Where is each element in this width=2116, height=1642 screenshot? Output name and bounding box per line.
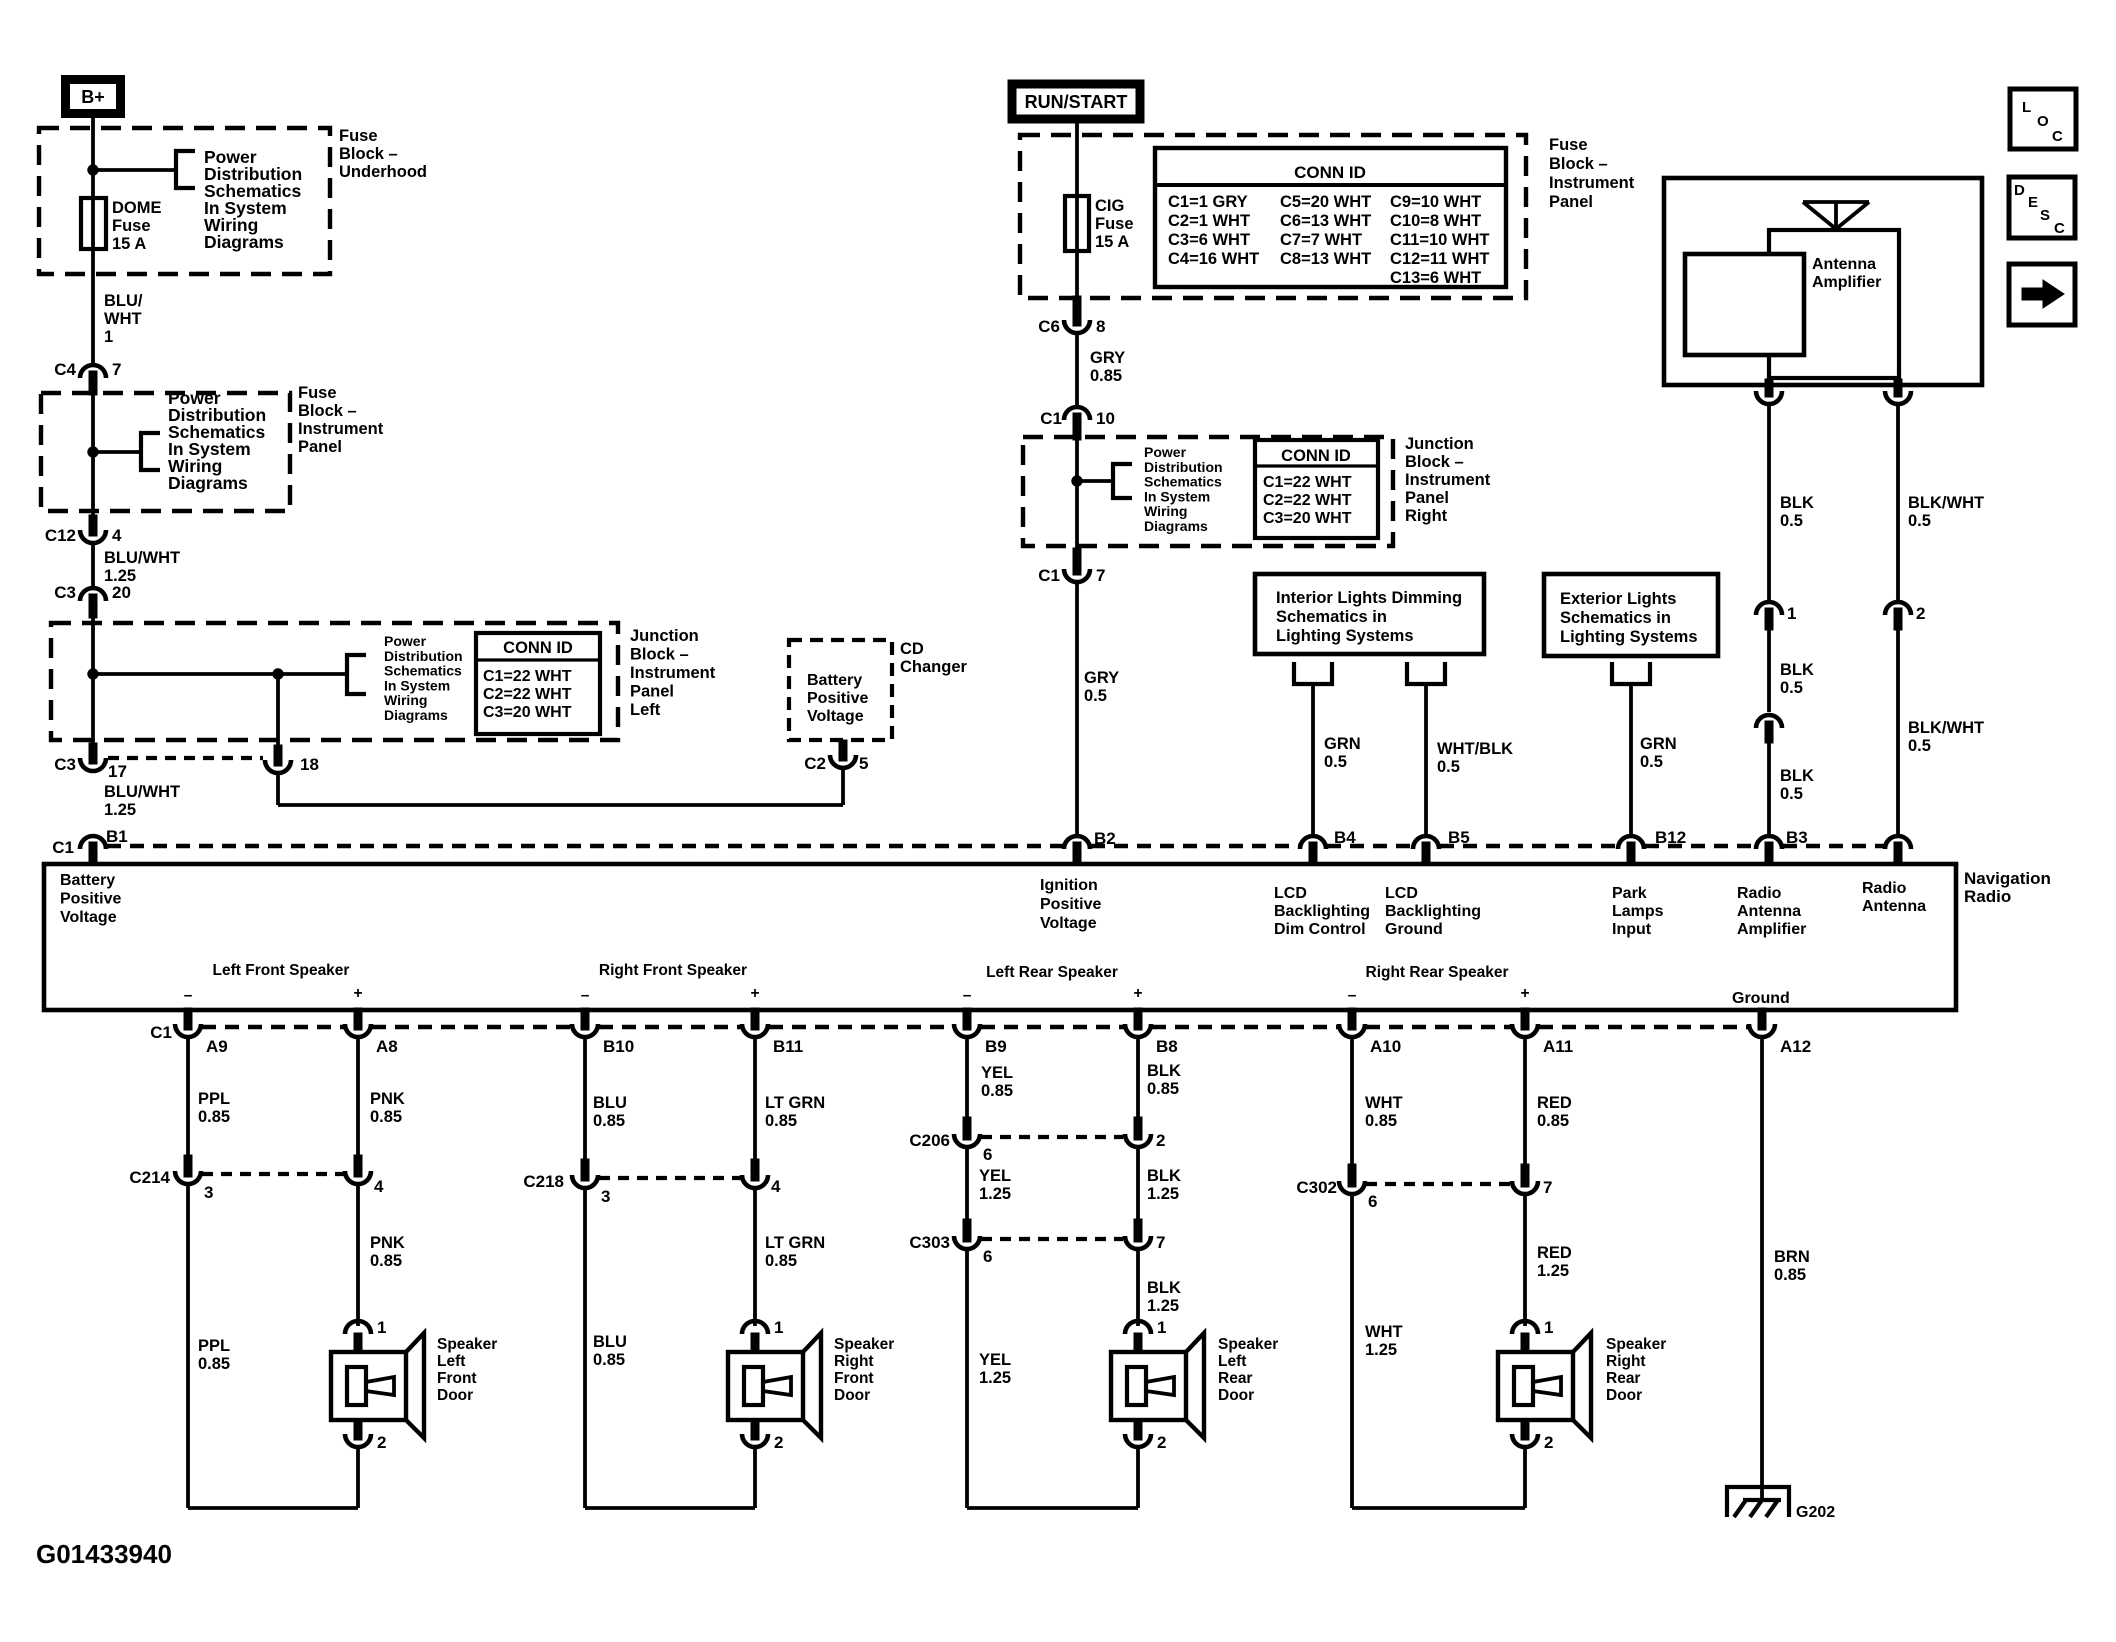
- node junction B (to connector 18): [273, 669, 283, 679]
- svg-text:B9: B9: [985, 1037, 1007, 1056]
- svg-text:BLK: BLK: [1780, 661, 1814, 679]
- svg-text:LCD: LCD: [1385, 885, 1418, 902]
- svg-text:0.5: 0.5: [1324, 753, 1347, 771]
- svg-text:Distribution: Distribution: [384, 648, 463, 664]
- svg-text:+: +: [353, 985, 362, 1002]
- svg-text:C10=8 WHT: C10=8 WHT: [1390, 212, 1481, 230]
- svg-text:Instrument: Instrument: [1405, 471, 1491, 489]
- dashed connector row speakers (radio bottom): [202, 1025, 344, 1029]
- connector C214 pin 4: [354, 1155, 362, 1177]
- svg-text:WHT/BLK: WHT/BLK: [1437, 740, 1513, 758]
- svg-text:A12: A12: [1780, 1037, 1811, 1056]
- svg-text:Speaker: Speaker: [437, 1336, 497, 1353]
- svg-text:Positive: Positive: [1040, 896, 1101, 913]
- svg-text:B11: B11: [773, 1037, 803, 1056]
- svg-text:+: +: [1520, 985, 1529, 1002]
- connector C302 pin 6: [1348, 1164, 1356, 1187]
- svg-text:7: 7: [1543, 1178, 1552, 1197]
- svg-text:C2: C2: [804, 754, 826, 773]
- wire A11 RED down: [1523, 1037, 1527, 1172]
- svg-text:Schematics: Schematics: [384, 663, 462, 679]
- svg-text:Left Front Speaker: Left Front Speaker: [213, 962, 350, 979]
- svg-text:PPL: PPL: [198, 1090, 230, 1108]
- svg-text:C3=6 WHT: C3=6 WHT: [1168, 231, 1250, 249]
- svg-text:0.85: 0.85: [593, 1112, 625, 1130]
- svg-text:0.85: 0.85: [981, 1082, 1013, 1100]
- dashed line C218 row: [599, 1176, 741, 1180]
- svg-text:18: 18: [300, 755, 319, 774]
- svg-text:Radio: Radio: [1862, 880, 1907, 897]
- connector pin B8: [1134, 1008, 1142, 1030]
- wire branch JB right: [1077, 479, 1113, 483]
- svg-text:Underhood: Underhood: [339, 163, 427, 181]
- svg-text:Panel: Panel: [298, 438, 342, 456]
- svg-text:C3: C3: [54, 583, 76, 602]
- svg-text:C3: C3: [54, 755, 76, 774]
- box Interior Lights Dimming Schematics in Lighting Systems: [1255, 574, 1484, 654]
- svg-text:C3=20 WHT: C3=20 WHT: [483, 704, 572, 721]
- svg-text:YEL: YEL: [979, 1167, 1011, 1185]
- connector C218 pin 3: [581, 1159, 589, 1181]
- fuse block underhood dashed box: [39, 128, 330, 274]
- svg-text:LT GRN: LT GRN: [765, 1094, 825, 1112]
- svg-text:8: 8: [1096, 317, 1105, 336]
- svg-text:6: 6: [983, 1145, 992, 1164]
- svg-text:6: 6: [1368, 1192, 1377, 1211]
- svg-text:0.85: 0.85: [1537, 1112, 1569, 1130]
- svg-text:2: 2: [1156, 1131, 1165, 1150]
- connector C218 pin 4: [751, 1159, 759, 1181]
- svg-text:C8=13 WHT: C8=13 WHT: [1280, 250, 1371, 268]
- svg-text:Speaker: Speaker: [1218, 1336, 1278, 1353]
- wire branch across JB left: [93, 672, 347, 676]
- svg-text:C218: C218: [523, 1172, 564, 1191]
- svg-text:C1: C1: [1040, 409, 1062, 428]
- svg-text:3: 3: [204, 1183, 213, 1202]
- svg-text:RED: RED: [1537, 1244, 1572, 1262]
- svg-text:CIG: CIG: [1095, 197, 1124, 215]
- svg-text:C302: C302: [1296, 1178, 1337, 1197]
- svg-text:Diagrams: Diagrams: [168, 473, 248, 493]
- svg-text:Junction: Junction: [630, 627, 699, 645]
- wire YEL to bottom: [965, 1249, 969, 1508]
- junction block instrument panel left dashed box: [51, 623, 618, 740]
- fuse block instrument panel (run/start) dashed box: [1020, 135, 1526, 298]
- connector pin B9: [963, 1008, 971, 1030]
- connector pin 18: [274, 745, 282, 766]
- svg-text:BRN: BRN: [1774, 1248, 1810, 1266]
- svg-text:Schematics in: Schematics in: [1276, 608, 1387, 626]
- svg-text:RUN/START: RUN/START: [1025, 92, 1128, 112]
- navigation radio box: [44, 864, 1956, 1010]
- connector pin B11: [751, 1008, 759, 1030]
- svg-text:C6: C6: [1038, 317, 1060, 336]
- svg-text:+: +: [1133, 985, 1142, 1002]
- svg-text:0.85: 0.85: [370, 1108, 402, 1126]
- svg-text:BLU: BLU: [593, 1333, 627, 1351]
- node junction A in JB left: [88, 669, 98, 679]
- svg-text:0.85: 0.85: [370, 1252, 402, 1270]
- svg-text:BLU/WHT: BLU/WHT: [104, 549, 180, 567]
- connector pin A11: [1521, 1008, 1529, 1030]
- connector C302 pin 7: [1521, 1164, 1529, 1187]
- svg-text:YEL: YEL: [981, 1064, 1013, 1082]
- wire C1-7 to B2: [1075, 582, 1079, 836]
- svg-text:B10: B10: [603, 1037, 634, 1056]
- svg-text:PNK: PNK: [370, 1234, 405, 1252]
- svg-text:1.25: 1.25: [979, 1185, 1011, 1203]
- svg-text:–: –: [184, 987, 193, 1004]
- svg-text:0.85: 0.85: [1090, 367, 1122, 385]
- svg-text:1.25: 1.25: [1365, 1341, 1397, 1359]
- svg-text:E: E: [2028, 194, 2038, 211]
- svg-text:C2=1 WHT: C2=1 WHT: [1168, 212, 1250, 230]
- svg-text:0.5: 0.5: [1640, 753, 1663, 771]
- svg-text:Speaker: Speaker: [1606, 1336, 1666, 1353]
- inline connector left (below amp): [1765, 379, 1773, 397]
- svg-text:O: O: [2037, 113, 2049, 130]
- svg-text:BLK/WHT: BLK/WHT: [1908, 494, 1984, 512]
- svg-text:Block –: Block –: [630, 646, 689, 664]
- wire bottom left front loop: [188, 1506, 358, 1510]
- svg-text:Fuse: Fuse: [1549, 136, 1588, 154]
- svg-text:2: 2: [1157, 1433, 1166, 1452]
- svg-text:2: 2: [1916, 604, 1925, 623]
- svg-text:1.25: 1.25: [1147, 1297, 1179, 1315]
- svg-text:1: 1: [774, 1318, 783, 1337]
- svg-text:0.5: 0.5: [1908, 737, 1931, 755]
- CD changer dashed box: [789, 640, 892, 740]
- svg-text:C1: C1: [52, 838, 74, 857]
- svg-text:5: 5: [859, 754, 868, 773]
- wire LT GRN to speaker RF: [753, 1188, 757, 1326]
- svg-text:B5: B5: [1448, 828, 1470, 847]
- connector pin A9: [184, 1008, 192, 1030]
- wire down to connector 18: [276, 674, 280, 748]
- svg-text:C1=1 GRY: C1=1 GRY: [1168, 193, 1248, 211]
- svg-text:A8: A8: [376, 1037, 398, 1056]
- svg-text:0.5: 0.5: [1084, 687, 1107, 705]
- wire antenna amp left output: [1767, 355, 1771, 394]
- svg-text:LT GRN: LT GRN: [765, 1234, 825, 1252]
- svg-text:Rear: Rear: [1606, 1370, 1640, 1387]
- wire B9 YEL down: [965, 1037, 969, 1125]
- svg-text:Door: Door: [1218, 1387, 1254, 1404]
- junction block instrument panel right dashed box: [1023, 437, 1393, 546]
- svg-text:A9: A9: [206, 1037, 228, 1056]
- svg-text:0.85: 0.85: [198, 1355, 230, 1373]
- svg-text:Lighting Systems: Lighting Systems: [1560, 628, 1698, 646]
- svg-text:1.25: 1.25: [1537, 1262, 1569, 1280]
- svg-text:Instrument: Instrument: [630, 664, 716, 682]
- svg-text:C: C: [2052, 128, 2063, 145]
- wire PPL to bottom: [186, 1184, 190, 1508]
- wire node18 arc down: [276, 772, 280, 805]
- svg-text:WHT: WHT: [1365, 1323, 1403, 1341]
- svg-text:Block –: Block –: [1405, 453, 1464, 471]
- wire A12 BRN ground wire: [1760, 1037, 1764, 1500]
- svg-text:1: 1: [1157, 1318, 1166, 1337]
- svg-text:C1=22 WHT: C1=22 WHT: [483, 668, 572, 685]
- svg-text:Wiring: Wiring: [384, 692, 427, 708]
- svg-text:C2=22 WHT: C2=22 WHT: [483, 686, 572, 703]
- svg-text:Wiring: Wiring: [1144, 503, 1187, 519]
- svg-text:Left: Left: [437, 1353, 465, 1370]
- wire bottom left rear loop: [967, 1506, 1138, 1510]
- svg-text:Amplifier: Amplifier: [1812, 274, 1881, 291]
- wire B10 BLU down: [583, 1037, 587, 1167]
- svg-text:B+: B+: [81, 87, 105, 107]
- svg-text:–: –: [963, 987, 972, 1004]
- wire antenna amp right output: [1896, 378, 1900, 394]
- connector pin A8: [354, 1008, 362, 1030]
- svg-text:Fuse: Fuse: [112, 217, 151, 235]
- svg-text:Right: Right: [1405, 507, 1448, 525]
- svg-text:GRY: GRY: [1090, 349, 1125, 367]
- node junction in fuse block underhood: [88, 165, 98, 175]
- dashed connector row C1/B (radio top): [107, 844, 1063, 848]
- svg-text:C206: C206: [909, 1131, 950, 1150]
- svg-text:1: 1: [1544, 1318, 1553, 1337]
- svg-text:WHT: WHT: [104, 310, 142, 328]
- svg-text:1.25: 1.25: [104, 801, 136, 819]
- svg-text:0.85: 0.85: [1147, 1080, 1179, 1098]
- svg-text:C13=6 WHT: C13=6 WHT: [1390, 269, 1481, 287]
- svg-text:Ground: Ground: [1732, 990, 1790, 1007]
- svg-text:Backlighting: Backlighting: [1274, 903, 1370, 920]
- svg-text:6: 6: [983, 1247, 992, 1266]
- inline connector pin 2 (antenna lead): [1885, 602, 1911, 615]
- connector radio antenna input: [1885, 836, 1911, 849]
- connector C1 pin 7 (JB right): [1073, 548, 1081, 575]
- svg-text:B12: B12: [1655, 828, 1686, 847]
- wire B+ to fuse block underhood: [91, 118, 95, 363]
- wire C12 to C3: [91, 543, 95, 586]
- svg-text:15 A: 15 A: [1095, 233, 1129, 251]
- dashed line C214 row: [202, 1172, 344, 1176]
- legend box LOC: [2010, 89, 2076, 149]
- svg-text:Speaker: Speaker: [834, 1336, 894, 1353]
- legend box DESC: [2009, 177, 2075, 238]
- svg-text:BLU: BLU: [593, 1094, 627, 1112]
- svg-text:Panel: Panel: [1549, 193, 1593, 211]
- inline connector right (below amp): [1894, 379, 1902, 397]
- svg-text:C9=10 WHT: C9=10 WHT: [1390, 193, 1481, 211]
- svg-text:0.85: 0.85: [765, 1112, 797, 1130]
- amplifier block (white square): [1685, 254, 1804, 355]
- svg-text:Distribution: Distribution: [1144, 459, 1223, 475]
- svg-text:Antenna: Antenna: [1737, 903, 1801, 920]
- svg-text:3: 3: [601, 1187, 610, 1206]
- svg-text:7: 7: [1096, 566, 1105, 585]
- svg-text:10: 10: [1096, 409, 1115, 428]
- svg-text:RED: RED: [1537, 1094, 1572, 1112]
- svg-text:C214: C214: [129, 1168, 170, 1187]
- svg-text:Positive: Positive: [60, 891, 121, 908]
- svg-text:C5=20 WHT: C5=20 WHT: [1280, 193, 1371, 211]
- svg-text:BLK: BLK: [1780, 494, 1814, 512]
- svg-text:Block –: Block –: [1549, 155, 1608, 173]
- svg-text:Door: Door: [437, 1387, 473, 1404]
- svg-text:Instrument: Instrument: [1549, 174, 1635, 192]
- speaker right front door: [742, 1321, 768, 1334]
- svg-text:Fuse: Fuse: [298, 384, 337, 402]
- svg-text:PPL: PPL: [198, 1337, 230, 1355]
- connector pin B10: [581, 1008, 589, 1030]
- svg-text:C2=22 WHT: C2=22 WHT: [1263, 492, 1352, 509]
- svg-text:In System: In System: [384, 677, 450, 693]
- svg-text:2: 2: [377, 1433, 386, 1452]
- connector C214 pin 3: [184, 1155, 192, 1177]
- svg-text:S: S: [2040, 207, 2050, 224]
- wire C2-5 down: [841, 768, 845, 805]
- svg-text:B3: B3: [1786, 828, 1808, 847]
- svg-text:1: 1: [1787, 604, 1796, 623]
- svg-text:Door: Door: [834, 1387, 870, 1404]
- fuse CIG 15A: [1065, 196, 1089, 251]
- svg-text:A10: A10: [1370, 1037, 1401, 1056]
- conn id table JB left: [476, 633, 600, 734]
- svg-text:0.5: 0.5: [1780, 785, 1803, 803]
- dashed line C303 row: [981, 1237, 1123, 1241]
- svg-text:Voltage: Voltage: [60, 909, 117, 926]
- svg-text:Navigation: Navigation: [1964, 869, 2051, 888]
- conn id table fuse block IP: [1155, 148, 1506, 287]
- svg-text:CONN ID: CONN ID: [1281, 447, 1351, 465]
- svg-text:7: 7: [1156, 1233, 1165, 1252]
- svg-text:G01433940: G01433940: [36, 1539, 172, 1569]
- wire WHT to bottom: [1350, 1194, 1354, 1508]
- svg-text:C: C: [2054, 220, 2065, 237]
- connector C303 pin 6: [963, 1219, 971, 1242]
- svg-text:LCD: LCD: [1274, 885, 1307, 902]
- svg-text:0.85: 0.85: [765, 1252, 797, 1270]
- svg-text:C11=10 WHT: C11=10 WHT: [1390, 231, 1490, 249]
- svg-text:2: 2: [774, 1433, 783, 1452]
- svg-text:BLK/WHT: BLK/WHT: [1908, 719, 1984, 737]
- svg-text:Right Front Speaker: Right Front Speaker: [599, 962, 747, 979]
- svg-text:0.85: 0.85: [593, 1351, 625, 1369]
- svg-text:4: 4: [771, 1177, 781, 1196]
- svg-text:Ignition: Ignition: [1040, 877, 1098, 894]
- svg-text:Voltage: Voltage: [1040, 915, 1097, 932]
- svg-text:Front: Front: [437, 1370, 477, 1387]
- svg-text:1.25: 1.25: [979, 1369, 1011, 1387]
- svg-text:7: 7: [112, 360, 121, 379]
- wire BLU to bottom: [583, 1188, 587, 1508]
- wire BLK to speaker LR: [1136, 1249, 1140, 1326]
- svg-text:BLK: BLK: [1147, 1279, 1181, 1297]
- node junction JB right: [1072, 476, 1082, 486]
- ground symbol G202: [1727, 1487, 1789, 1517]
- svg-text:–: –: [1348, 987, 1357, 1004]
- svg-text:Amplifier: Amplifier: [1737, 921, 1806, 938]
- svg-text:Rear: Rear: [1218, 1370, 1252, 1387]
- svg-text:C1: C1: [150, 1023, 172, 1042]
- connector C206 pin 6: [963, 1117, 971, 1140]
- svg-text:BLK: BLK: [1147, 1062, 1181, 1080]
- svg-text:1: 1: [377, 1318, 386, 1337]
- svg-text:Panel: Panel: [1405, 489, 1449, 507]
- svg-text:0.85: 0.85: [1774, 1266, 1806, 1284]
- wire C6 to C1: [1075, 333, 1079, 405]
- dashed line C302 row: [1366, 1182, 1510, 1186]
- speaker left rear door: [1125, 1321, 1151, 1334]
- svg-text:Positive: Positive: [807, 690, 868, 707]
- power symbol B+: [66, 80, 121, 114]
- svg-text:Voltage: Voltage: [807, 708, 864, 725]
- svg-text:Schematics in: Schematics in: [1560, 609, 1671, 627]
- dashed connector line C3 17-18: [108, 756, 263, 760]
- svg-text:Schematics: Schematics: [1144, 474, 1222, 490]
- svg-text:C1: C1: [1038, 566, 1060, 585]
- speaker left front door: [345, 1321, 371, 1334]
- svg-text:L: L: [2022, 99, 2031, 116]
- svg-text:C4=16 WHT: C4=16 WHT: [1168, 250, 1259, 268]
- wire branch to schematic reference: [93, 168, 176, 172]
- wire bottom right rear loop: [1352, 1506, 1525, 1510]
- svg-text:Radio: Radio: [1737, 885, 1782, 902]
- svg-text:0.5: 0.5: [1908, 512, 1931, 530]
- wire PNK to speaker LF: [356, 1184, 360, 1326]
- svg-text:GRY: GRY: [1084, 669, 1119, 687]
- wire RED to speaker RR: [1523, 1194, 1527, 1326]
- svg-text:B1: B1: [106, 827, 128, 846]
- svg-text:Diagrams: Diagrams: [384, 707, 448, 723]
- svg-text:CONN ID: CONN ID: [503, 639, 573, 657]
- svg-text:A11: A11: [1543, 1037, 1573, 1056]
- svg-text:C1=22 WHT: C1=22 WHT: [1263, 474, 1352, 491]
- inline connector pin 1 (antenna lead): [1756, 602, 1782, 615]
- svg-text:C4: C4: [54, 360, 76, 379]
- svg-text:0.85: 0.85: [1365, 1112, 1397, 1130]
- connector pin 2 (C206): [1134, 1117, 1142, 1140]
- svg-text:Input: Input: [1612, 921, 1652, 938]
- svg-text:+: +: [750, 985, 759, 1002]
- svg-text:BLK: BLK: [1780, 767, 1814, 785]
- node junction in fuse block IP: [88, 447, 98, 457]
- page connector under interior lights box (dim control): [1294, 662, 1332, 684]
- svg-text:Door: Door: [1606, 1387, 1642, 1404]
- svg-text:1.25: 1.25: [1147, 1185, 1179, 1203]
- svg-text:Antenna: Antenna: [1812, 256, 1876, 273]
- svg-text:Power: Power: [384, 633, 427, 649]
- wire RUN/START down: [1075, 122, 1079, 300]
- svg-text:4: 4: [374, 1177, 384, 1196]
- svg-text:Antenna: Antenna: [1862, 898, 1926, 915]
- svg-text:Changer: Changer: [900, 658, 968, 676]
- svg-text:Lamps: Lamps: [1612, 903, 1664, 920]
- power symbol RUN/START: [1012, 84, 1140, 119]
- svg-text:20: 20: [112, 583, 131, 602]
- svg-text:C7=7 WHT: C7=7 WHT: [1280, 231, 1362, 249]
- svg-text:Battery: Battery: [60, 872, 115, 889]
- svg-text:Fuse: Fuse: [1095, 215, 1134, 233]
- svg-text:BLU/WHT: BLU/WHT: [104, 783, 180, 801]
- svg-text:2: 2: [1544, 1433, 1553, 1452]
- svg-text:Junction: Junction: [1405, 435, 1474, 453]
- svg-text:B8: B8: [1156, 1037, 1178, 1056]
- antenna symbol: [1803, 202, 1869, 231]
- svg-text:GRN: GRN: [1640, 735, 1677, 753]
- svg-text:–: –: [581, 987, 590, 1004]
- svg-text:CONN ID: CONN ID: [1294, 163, 1366, 182]
- page connector under exterior lights box: [1612, 662, 1650, 684]
- connector C6 pin 8: [1073, 296, 1081, 326]
- wire YEL 1.25 mid: [965, 1147, 969, 1227]
- wire through junction block left: [91, 613, 95, 745]
- svg-text:GRN: GRN: [1324, 735, 1361, 753]
